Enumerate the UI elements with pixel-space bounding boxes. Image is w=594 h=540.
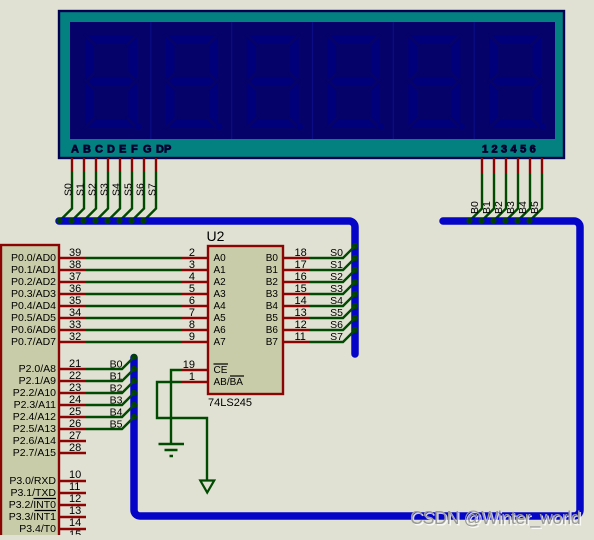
svg-text:33: 33 <box>69 319 81 331</box>
svg-text:6: 6 <box>189 295 195 307</box>
svg-text:35: 35 <box>69 295 81 307</box>
svg-text:4: 4 <box>189 271 195 283</box>
svg-text:P2.5/A13: P2.5/A13 <box>13 423 56 435</box>
wire B0 digit1 to bus <box>470 173 483 221</box>
wire P0.2 to A2 <box>86 281 182 283</box>
svg-text:15: 15 <box>69 529 81 535</box>
74LS245 B-side pin names <box>266 253 279 348</box>
svg-text:B4: B4 <box>110 407 123 419</box>
svg-text:P0.6/AD6: P0.6/AD6 <box>11 324 56 336</box>
wire AB/BA to ground terminal <box>157 382 207 481</box>
74LS245 A-side pin names <box>214 253 227 348</box>
wire P0.1 to A1 <box>86 269 182 271</box>
svg-text:14: 14 <box>69 517 81 529</box>
wire P2.3 net B3 to bus <box>86 393 134 405</box>
svg-text:S3: S3 <box>99 183 111 196</box>
digit 5 <box>407 34 465 130</box>
svg-text:B0: B0 <box>110 359 123 371</box>
wire S6 display to bus <box>132 171 145 221</box>
digit cell dividers <box>151 22 474 139</box>
svg-text:S0: S0 <box>63 183 75 196</box>
wire P0.3 to A3 <box>86 293 182 295</box>
svg-text:27: 27 <box>69 430 81 442</box>
svg-text:1: 1 <box>189 371 195 383</box>
svg-text:A6: A6 <box>214 325 227 336</box>
wire S2 display to bus <box>84 171 97 221</box>
svg-text:B3: B3 <box>266 289 279 300</box>
wire 74LS245 B3 net S3 to bus <box>309 282 355 294</box>
svg-text:36: 36 <box>69 283 81 295</box>
74LS245 A-side pin numbers <box>183 247 195 383</box>
ground <box>159 444 185 456</box>
wire B1 digit2 to bus <box>482 173 495 221</box>
MCU pin numbers <box>69 247 81 540</box>
bus junctions: segment bus left <box>56 218 146 224</box>
svg-text:S3: S3 <box>330 283 343 295</box>
svg-text:B3: B3 <box>110 395 123 407</box>
svg-text:25: 25 <box>69 406 81 418</box>
svg-text:B1: B1 <box>266 265 279 276</box>
svg-text:S7: S7 <box>330 331 343 343</box>
svg-text:22: 22 <box>69 370 81 382</box>
svg-text:B5: B5 <box>110 419 123 431</box>
bus junctions: 74LS245 B-side <box>352 243 358 333</box>
svg-text:P2.6/A14: P2.6/A14 <box>13 435 56 447</box>
display segment pin labels ABCDEFG DP <box>71 144 171 156</box>
svg-text:P2.7/A15: P2.7/A15 <box>13 447 56 459</box>
svg-text:A5: A5 <box>214 313 227 324</box>
overline INT0 <box>34 498 57 500</box>
wire S0 display to bus <box>60 171 73 221</box>
svg-text:P3.0/RXD: P3.0/RXD <box>9 475 56 487</box>
svg-text:39: 39 <box>69 247 81 259</box>
svg-text:AB/BA: AB/BA <box>214 377 244 388</box>
svg-text:A4: A4 <box>214 301 227 312</box>
svg-text:P2.3/A11: P2.3/A11 <box>14 399 57 411</box>
wire S3 display to bus <box>96 171 109 221</box>
svg-text:P2.2/A10: P2.2/A10 <box>13 387 56 399</box>
wire 74LS245 B2 net S2 to bus <box>309 270 355 282</box>
digit 6 <box>488 34 546 130</box>
svg-text:S6: S6 <box>330 319 343 331</box>
display digit-select pins 1-6 (red stubs) <box>482 158 542 173</box>
svg-text:S6: S6 <box>135 183 147 196</box>
wire CE to ground <box>171 370 182 444</box>
svg-text:P0.1/AD1: P0.1/AD1 <box>11 264 56 276</box>
svg-text:A7: A7 <box>214 337 227 348</box>
svg-text:P3.4/T0: P3.4/T0 <box>19 523 56 535</box>
svg-text:A2: A2 <box>214 277 227 288</box>
svg-text:26: 26 <box>69 418 81 430</box>
svg-text:P0.4/AD4: P0.4/AD4 <box>11 300 56 312</box>
svg-text:P0.5/AD5: P0.5/AD5 <box>11 312 56 324</box>
net labels B0-B5 (vertical) <box>469 201 541 214</box>
wire P2.4 net B4 to bus <box>86 405 134 417</box>
svg-text:34: 34 <box>69 307 81 319</box>
svg-text:B5: B5 <box>266 313 279 324</box>
net labels B0-B5 on P2 wires <box>110 359 123 431</box>
svg-text:B2: B2 <box>266 277 279 288</box>
svg-text:P0.2/AD2: P0.2/AD2 <box>11 276 56 288</box>
bus: digit-select bus (MCU P2 around to display) <box>134 221 580 516</box>
wire P0.5 to A5 <box>86 317 182 319</box>
wire S7 display to bus <box>144 171 157 221</box>
svg-text:P3.2/INT0: P3.2/INT0 <box>9 499 56 511</box>
svg-text:DP: DP <box>156 144 171 156</box>
svg-text:P3.1/TXD: P3.1/TXD <box>10 487 56 499</box>
svg-text:5: 5 <box>189 283 195 295</box>
svg-text:23: 23 <box>69 382 81 394</box>
svg-text:13: 13 <box>69 505 81 517</box>
svg-text:15: 15 <box>295 283 307 295</box>
wire 74LS245 B0 net S0 to bus <box>309 246 355 258</box>
svg-text:A1: A1 <box>214 265 227 276</box>
svg-text:S5: S5 <box>330 307 343 319</box>
svg-text:3: 3 <box>189 259 195 271</box>
svg-text:P0.7/AD7: P0.7/AD7 <box>11 336 56 348</box>
MCU P3 pin names <box>9 475 57 535</box>
svg-text:8: 8 <box>189 319 195 331</box>
svg-text:10: 10 <box>69 469 81 481</box>
svg-text:B2: B2 <box>110 383 123 395</box>
wire P0.4 to A4 <box>86 305 182 307</box>
display digit-select labels 123456 <box>482 144 539 156</box>
svg-text:18: 18 <box>295 247 307 259</box>
svg-text:B1: B1 <box>110 371 123 383</box>
svg-text:B4: B4 <box>266 301 279 312</box>
74LS245 B-side pin stubs <box>283 258 309 342</box>
wire 74LS245 B6 net S6 to bus <box>309 318 355 330</box>
wire 74LS245 B1 net S1 to bus <box>309 258 355 270</box>
svg-text:38: 38 <box>69 259 81 271</box>
svg-text:2: 2 <box>189 247 195 259</box>
MCU P2 pin names <box>13 363 56 459</box>
74LS245 B-side pin numbers <box>295 247 307 343</box>
svg-text:B1: B1 <box>481 201 493 214</box>
svg-text:B0: B0 <box>266 253 279 264</box>
svg-text:F: F <box>131 144 138 156</box>
svg-text:12: 12 <box>295 319 307 331</box>
svg-text:C: C <box>95 144 103 156</box>
wire B3 digit4 to bus <box>506 173 519 221</box>
74LS245 A-side pin stubs <box>182 258 208 382</box>
svg-text:123456: 123456 <box>482 144 539 156</box>
wire P2.1 net B1 to bus <box>86 369 134 381</box>
svg-text:74LS245: 74LS245 <box>208 397 252 409</box>
svg-text:24: 24 <box>69 394 81 406</box>
display DS1 body <box>59 11 564 158</box>
svg-text:P2.1/A9: P2.1/A9 <box>19 375 57 387</box>
svg-text:B: B <box>83 144 91 156</box>
MCU P0 pin names <box>11 252 56 348</box>
svg-text:U2: U2 <box>207 228 225 244</box>
display active area <box>70 22 555 139</box>
wire B2 digit3 to bus <box>494 173 507 221</box>
bus junctions: MCU P2 side <box>131 354 137 420</box>
svg-text:12: 12 <box>69 493 81 505</box>
net labels S0-S7 on B-side wires <box>330 247 343 343</box>
wire P0.0 to A0 <box>86 257 182 259</box>
svg-text:S2: S2 <box>330 271 343 283</box>
overline INT1 <box>35 510 57 512</box>
wire P2.5 net B5 to bus <box>86 417 134 429</box>
svg-text:28: 28 <box>69 442 81 454</box>
svg-text:S0: S0 <box>330 247 343 259</box>
svg-text:7: 7 <box>189 307 195 319</box>
wire P2.0 net B0 to bus <box>86 357 134 369</box>
svg-text:17: 17 <box>295 259 307 271</box>
svg-text:S7: S7 <box>147 183 159 196</box>
wire B5 digit6 to bus <box>530 173 543 221</box>
wire 74LS245 B4 net S4 to bus <box>309 294 355 306</box>
wire P2.2 net B2 to bus <box>86 381 134 393</box>
wire P0.7 to A7 <box>86 341 182 343</box>
wire S1 display to bus <box>72 171 85 221</box>
svg-text:9: 9 <box>189 331 195 343</box>
wire 74LS245 B5 net S5 to bus <box>309 306 355 318</box>
svg-text:B3: B3 <box>505 201 517 214</box>
digit 3 <box>246 34 304 130</box>
wire P0.6 to A6 <box>86 329 182 331</box>
svg-text:11: 11 <box>69 481 80 493</box>
svg-text:S1: S1 <box>330 259 343 271</box>
wire S5 display to bus <box>120 171 133 221</box>
svg-text:A: A <box>71 144 79 156</box>
svg-text:P0.0/AD0: P0.0/AD0 <box>11 252 56 264</box>
svg-text:S4: S4 <box>111 183 123 196</box>
svg-text:21: 21 <box>69 358 81 370</box>
svg-text:P3.3/INT1: P3.3/INT1 <box>9 511 56 523</box>
svg-text:11: 11 <box>295 331 306 343</box>
svg-text:37: 37 <box>69 271 81 283</box>
svg-text:A3: A3 <box>214 289 227 300</box>
MCU pin stubs <box>59 258 86 529</box>
bus junctions: digit-select bus top <box>466 218 532 224</box>
svg-text:13: 13 <box>295 307 307 319</box>
svg-text:B6: B6 <box>266 325 279 336</box>
display segment pins A-DP (red stubs) <box>72 158 156 171</box>
svg-text:P0.3/AD3: P0.3/AD3 <box>11 288 56 300</box>
net labels S0-S7 (vertical) <box>63 183 159 196</box>
wire B4 digit5 to bus <box>518 173 531 221</box>
bus: segment data bus (display to 74LS245 B side) <box>59 221 355 354</box>
svg-text:32: 32 <box>69 331 81 343</box>
ground terminal (down arrow) <box>200 481 214 493</box>
svg-text:P2.0/A8: P2.0/A8 <box>19 363 57 375</box>
svg-text:S5: S5 <box>123 183 135 196</box>
svg-text:B7: B7 <box>266 337 279 348</box>
digit 1 <box>84 34 142 130</box>
wire S4 display to bus <box>108 171 121 221</box>
svg-text:G: G <box>143 144 152 156</box>
buffer 74LS245 U2 body <box>208 246 283 394</box>
svg-text:19: 19 <box>183 359 195 371</box>
svg-text:P2.4/A12: P2.4/A12 <box>13 411 56 423</box>
svg-text:14: 14 <box>295 295 307 307</box>
svg-text:B4: B4 <box>517 201 529 214</box>
svg-text:CE: CE <box>214 365 228 376</box>
svg-text:16: 16 <box>295 271 307 283</box>
svg-text:S1: S1 <box>75 183 87 196</box>
wire 74LS245 B7 net S7 to bus <box>309 330 355 342</box>
svg-text:B5: B5 <box>529 201 541 214</box>
svg-text:A0: A0 <box>214 253 227 264</box>
svg-text:E: E <box>119 144 126 156</box>
digit 2 <box>165 34 223 130</box>
svg-text:CSDN @Winter_world: CSDN @Winter_world <box>410 508 580 529</box>
svg-text:B0: B0 <box>469 201 481 214</box>
svg-text:S2: S2 <box>87 183 99 196</box>
svg-text:D: D <box>107 144 115 156</box>
MCU U1 body <box>1 245 59 540</box>
svg-text:B2: B2 <box>493 201 505 214</box>
svg-text:S4: S4 <box>330 295 343 307</box>
digit 4 <box>327 34 385 130</box>
